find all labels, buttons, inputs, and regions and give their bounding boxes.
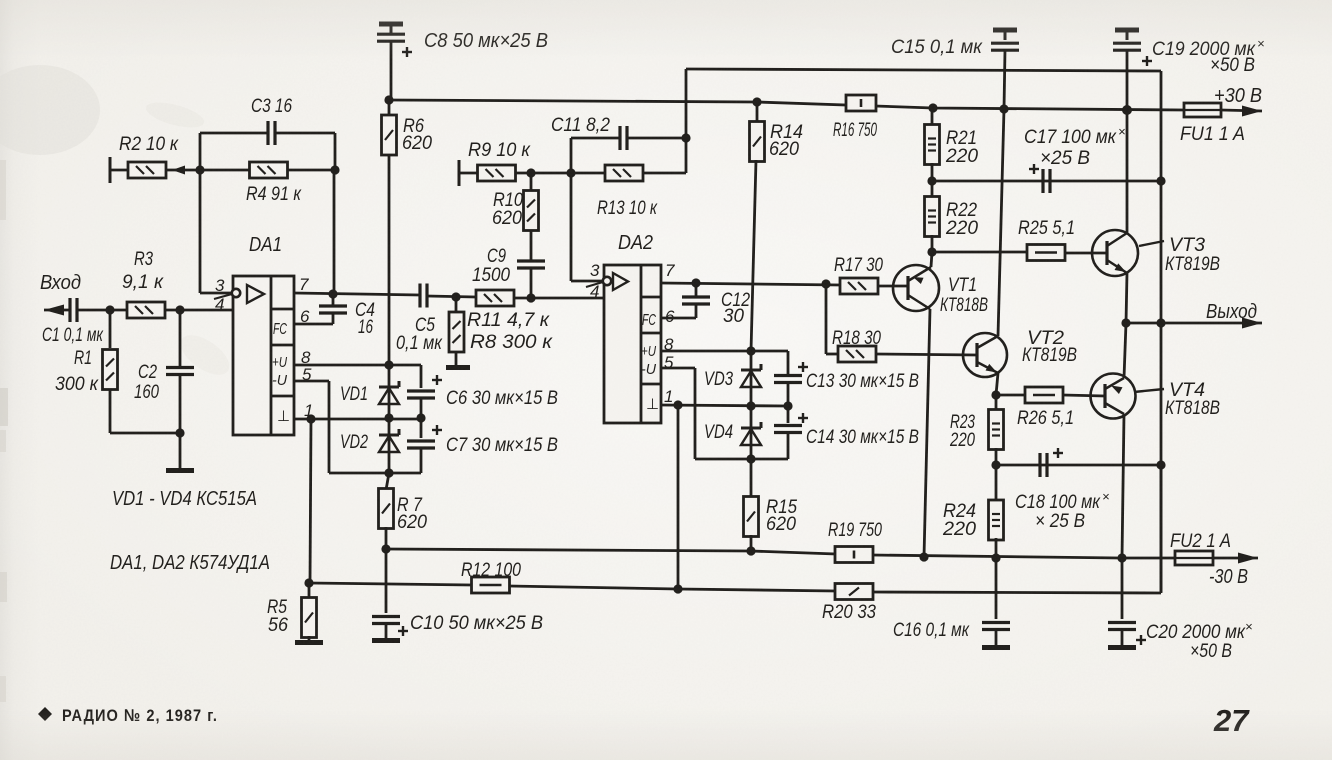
- svg-text:R22: R22: [946, 200, 977, 221]
- svg-text:C1 0,1 мк: C1 0,1 мк: [42, 325, 104, 346]
- svg-text:+30 В: +30 В: [1214, 85, 1262, 107]
- svg-text:C12: C12: [721, 290, 750, 311]
- svg-text:R19 750: R19 750: [828, 520, 882, 541]
- svg-text:6: 6: [300, 307, 310, 326]
- svg-text:620: 620: [397, 512, 427, 533]
- svg-text:FC: FC: [273, 321, 287, 338]
- svg-text:DA2: DA2: [618, 232, 653, 254]
- svg-text:56: 56: [268, 615, 288, 636]
- svg-text:R24: R24: [943, 501, 976, 522]
- svg-text:VD4: VD4: [704, 422, 733, 443]
- svg-text:620: 620: [769, 139, 799, 160]
- svg-text:220: 220: [945, 146, 978, 167]
- svg-text:R20 33: R20 33: [822, 602, 876, 623]
- svg-text:R11 4,7 к: R11 4,7 к: [467, 310, 550, 331]
- svg-text:C18 100 мк: C18 100 мк: [1015, 492, 1101, 513]
- svg-text:R17 30: R17 30: [834, 255, 883, 276]
- svg-text:×: ×: [1245, 619, 1253, 634]
- svg-text:VT1: VT1: [948, 275, 977, 296]
- svg-text:×: ×: [1257, 36, 1265, 51]
- svg-text:8: 8: [301, 348, 311, 367]
- svg-text:-U: -U: [641, 361, 656, 378]
- svg-text:КТ819В: КТ819В: [1022, 345, 1077, 366]
- svg-text:FC: FC: [642, 312, 656, 329]
- svg-text:620: 620: [402, 133, 432, 154]
- svg-text:R2 10 к: R2 10 к: [119, 134, 179, 155]
- svg-text:R 7: R 7: [397, 495, 423, 516]
- svg-text:620: 620: [766, 514, 796, 535]
- svg-text:× 25 В: × 25 В: [1035, 511, 1085, 532]
- svg-text:R12 100: R12 100: [461, 560, 521, 581]
- svg-text:R25 5,1: R25 5,1: [1018, 218, 1075, 239]
- svg-text:7: 7: [299, 275, 309, 294]
- svg-text:C10 50 мк×25 В: C10 50 мк×25 В: [410, 613, 543, 634]
- svg-text:VT2: VT2: [1027, 328, 1064, 349]
- svg-text:-U: -U: [272, 372, 287, 389]
- svg-text:R6: R6: [403, 116, 424, 137]
- svg-text:30: 30: [723, 306, 744, 327]
- svg-text:1500: 1500: [472, 265, 510, 286]
- svg-text:C20 2000 мк: C20 2000 мк: [1146, 622, 1246, 643]
- svg-text:R8 300 к: R8 300 к: [470, 332, 553, 353]
- svg-text:8: 8: [664, 335, 674, 354]
- svg-text:5: 5: [302, 365, 312, 384]
- svg-text:DA1, DA2 К574УД1А: DA1, DA2 К574УД1А: [110, 552, 270, 574]
- svg-text:R21: R21: [946, 128, 977, 149]
- svg-text:3: 3: [215, 276, 225, 295]
- svg-text:C7 30 мк×15 В: C7 30 мк×15 В: [446, 435, 558, 456]
- svg-text:C11 8,2: C11 8,2: [551, 115, 610, 136]
- svg-text:DA1: DA1: [249, 234, 282, 256]
- svg-text:+U: +U: [272, 354, 287, 371]
- svg-text:VD1 - VD4 КС515А: VD1 - VD4 КС515А: [112, 488, 257, 510]
- svg-text:0,1 мк: 0,1 мк: [396, 333, 443, 354]
- svg-text:C13 30 мк×15 В: C13 30 мк×15 В: [806, 371, 919, 392]
- svg-text:⊥: ⊥: [646, 396, 659, 413]
- svg-text:R1: R1: [74, 348, 92, 369]
- svg-text:220: 220: [945, 218, 978, 239]
- svg-text:C2: C2: [138, 362, 157, 383]
- svg-text:27: 27: [1213, 703, 1250, 738]
- svg-text:C16 0,1 мк: C16 0,1 мк: [893, 620, 970, 641]
- svg-text:FU1 1 A: FU1 1 A: [1180, 124, 1245, 145]
- svg-text:5: 5: [664, 353, 674, 372]
- svg-text:R23: R23: [950, 412, 975, 433]
- svg-text:6: 6: [665, 307, 675, 326]
- svg-text:R10: R10: [493, 190, 523, 211]
- svg-text:Вход: Вход: [40, 272, 81, 294]
- svg-text:620: 620: [492, 208, 522, 229]
- svg-text:КТ818В: КТ818В: [1165, 398, 1220, 419]
- svg-text:VT3: VT3: [1169, 235, 1205, 256]
- svg-text:C15 0,1 мк: C15 0,1 мк: [891, 37, 983, 58]
- svg-text:КТ819В: КТ819В: [1165, 254, 1220, 275]
- svg-text:R26 5,1: R26 5,1: [1017, 408, 1074, 429]
- svg-text:C3 16: C3 16: [251, 96, 292, 117]
- svg-text:-30 В: -30 В: [1209, 566, 1248, 588]
- svg-text:РАДИО № 2, 1987 г.: РАДИО № 2, 1987 г.: [62, 706, 218, 725]
- svg-text:C8 50 мк×25 В: C8 50 мк×25 В: [424, 30, 548, 52]
- svg-text:C5: C5: [415, 315, 435, 336]
- svg-text:R18 30: R18 30: [832, 328, 881, 349]
- svg-text:220: 220: [949, 430, 975, 451]
- svg-text:16: 16: [358, 317, 373, 338]
- svg-text:C17 100 мк: C17 100 мк: [1024, 127, 1117, 148]
- svg-text:C19 2000 мк: C19 2000 мк: [1152, 39, 1256, 60]
- svg-text:R15: R15: [766, 497, 797, 518]
- svg-text:×50 В: ×50 В: [1190, 641, 1232, 662]
- svg-text:×25 В: ×25 В: [1040, 148, 1090, 169]
- svg-text:1: 1: [304, 401, 313, 420]
- svg-text:+U: +U: [641, 343, 656, 360]
- svg-text:R3: R3: [134, 249, 153, 270]
- svg-text:C9: C9: [487, 246, 506, 267]
- svg-text:VT4: VT4: [1169, 380, 1205, 401]
- svg-text:R9 10 к: R9 10 к: [468, 140, 531, 161]
- svg-text:R14: R14: [770, 122, 803, 143]
- svg-text:C4: C4: [355, 300, 375, 321]
- svg-text:FU2 1 A: FU2 1 A: [1170, 531, 1231, 552]
- svg-text:C6 30 мк×15 В: C6 30 мк×15 В: [446, 388, 558, 409]
- svg-text:Выход: Выход: [1206, 301, 1257, 323]
- svg-text:220: 220: [942, 519, 976, 540]
- svg-text:×: ×: [1118, 124, 1126, 139]
- svg-text:160: 160: [134, 382, 159, 403]
- svg-text:R5: R5: [267, 597, 287, 618]
- svg-text:R13 10 к: R13 10 к: [597, 198, 658, 219]
- svg-text:4: 4: [215, 295, 224, 314]
- svg-text:R16 750: R16 750: [833, 120, 877, 141]
- svg-text:300 к: 300 к: [55, 374, 99, 395]
- svg-text:⊥: ⊥: [277, 408, 290, 425]
- svg-text:VD2: VD2: [340, 432, 368, 453]
- svg-text:4: 4: [590, 282, 599, 301]
- svg-text:1: 1: [664, 387, 673, 406]
- svg-text:C14 30 мк×15 В: C14 30 мк×15 В: [806, 427, 919, 448]
- svg-text:7: 7: [665, 261, 675, 280]
- svg-text:×50 В: ×50 В: [1210, 55, 1255, 76]
- svg-text:3: 3: [590, 261, 600, 280]
- svg-text:КТ818В: КТ818В: [940, 295, 988, 316]
- svg-text:×: ×: [1102, 489, 1110, 504]
- svg-text:VD3: VD3: [704, 369, 733, 390]
- svg-text:9,1 к: 9,1 к: [122, 272, 164, 293]
- svg-text:VD1: VD1: [340, 384, 368, 405]
- svg-text:R4 91 к: R4 91 к: [246, 184, 302, 205]
